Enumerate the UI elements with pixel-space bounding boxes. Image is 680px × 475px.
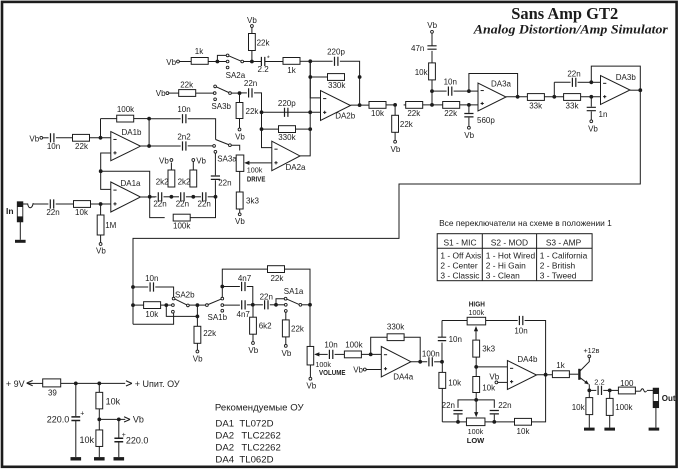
junction chain node 1 bbox=[164, 196, 180, 198]
junction low right bbox=[492, 420, 496, 424]
junction 4n7 top left bbox=[220, 285, 224, 289]
svg-text:VOLUME: VOLUME bbox=[319, 370, 346, 377]
junction DA3b output bbox=[638, 88, 642, 92]
op-amp DA3a bbox=[478, 83, 506, 111]
wire 2.2 to 1k bbox=[265, 61, 283, 63]
svg-text:10n: 10n bbox=[145, 274, 158, 283]
junction DA4b output bbox=[544, 373, 548, 377]
svg-text:220.0: 220.0 bbox=[126, 436, 149, 446]
svg-text:10k: 10k bbox=[75, 208, 89, 217]
svg-text:DA3b: DA3b bbox=[616, 73, 637, 82]
svg-text:22k: 22k bbox=[444, 109, 458, 118]
DA3a feedback loop bbox=[469, 74, 518, 97]
wire In jack to ground bbox=[19, 222, 21, 240]
wire 4n7 bottom right bbox=[247, 304, 253, 306]
Vb terminal below 6k2 bbox=[252, 342, 255, 345]
switch table bbox=[437, 234, 592, 281]
svg-text:4n7: 4n7 bbox=[237, 310, 251, 319]
capacitor 2.2 electrolytic bbox=[261, 57, 264, 66]
Vb terminal below 3k3 bbox=[238, 213, 241, 216]
Vb terminal below 1M bbox=[99, 243, 102, 246]
wire 2.2 to node bbox=[603, 389, 609, 391]
svg-text:+: + bbox=[80, 410, 84, 417]
resistor 10k input bbox=[74, 201, 91, 208]
svg-text:SA2b: SA2b bbox=[175, 290, 195, 299]
wire 1k to base bbox=[569, 373, 578, 375]
svg-text:Vb: Vb bbox=[235, 133, 245, 142]
wire 22k to Vb bbox=[285, 337, 287, 345]
potentiometer 100k VOLUME bbox=[307, 346, 314, 365]
wire DA1a output bbox=[141, 196, 156, 198]
resistor 10k tone bottom bbox=[515, 418, 532, 425]
wire 10k to low node bbox=[475, 393, 477, 400]
svg-text:DA4a: DA4a bbox=[393, 372, 414, 381]
svg-text:S2 - MOD: S2 - MOD bbox=[491, 237, 528, 247]
svg-text:DA2a: DA2a bbox=[285, 163, 306, 172]
svg-text:DA2: DA2 bbox=[215, 443, 234, 454]
Vb terminal below 560p bbox=[468, 126, 471, 129]
wire 47n to Vb bbox=[431, 33, 433, 46]
wire wiper to 10n bbox=[315, 353, 327, 355]
svg-text:22k: 22k bbox=[407, 109, 421, 118]
svg-text:SA1b: SA1b bbox=[208, 313, 228, 322]
wire 22k to SA3b throw bbox=[196, 92, 213, 94]
svg-text:SA2a: SA2a bbox=[226, 71, 246, 80]
wire C to R 22k bbox=[56, 137, 73, 139]
wire left column to DA2b - input bbox=[310, 61, 320, 98]
switch SA2a bbox=[217, 55, 226, 61]
svg-text:1n: 1n bbox=[599, 110, 608, 119]
capacitor 4n7 bottom bbox=[224, 304, 240, 306]
capacitor 10n tone left bbox=[441, 343, 443, 362]
wire 100 to squiggle bbox=[635, 390, 640, 392]
svg-text:10n: 10n bbox=[177, 105, 190, 114]
svg-text:100k: 100k bbox=[345, 341, 363, 350]
svg-text:10n: 10n bbox=[514, 326, 527, 335]
wire 10k to bottom row bbox=[441, 388, 443, 422]
resistor 22k SA3b bbox=[179, 90, 196, 97]
junction feedback right bbox=[147, 117, 151, 121]
svg-text:S1 - MIC: S1 - MIC bbox=[443, 237, 476, 247]
op-amp DA4b bbox=[507, 361, 536, 390]
capacitor 1n bbox=[590, 97, 592, 107]
wire 10k to ground bbox=[588, 415, 590, 428]
resistor 3k3 tone bbox=[473, 340, 480, 357]
svg-text:Vb: Vb bbox=[166, 58, 176, 67]
resistor 100k DA1a feedback bbox=[173, 214, 190, 221]
feedback wire left bbox=[101, 118, 117, 120]
junction Vb node bbox=[97, 418, 101, 422]
junction low node bbox=[474, 398, 478, 402]
wire 1M to Vb bbox=[100, 235, 102, 243]
In jack J1 bbox=[17, 202, 23, 222]
junction DA3b inverting node bbox=[589, 80, 593, 84]
capacitor 4n7 top bbox=[222, 286, 240, 288]
wire jack to squiggle bbox=[23, 203, 28, 205]
junction DA1a output node bbox=[148, 195, 152, 199]
wire cap to ground bbox=[118, 442, 120, 457]
svg-text:100k: 100k bbox=[247, 165, 263, 174]
svg-text:10k: 10k bbox=[572, 403, 586, 412]
svg-text:Vb: Vb bbox=[193, 355, 203, 364]
junction 22k shunt node bbox=[393, 103, 397, 107]
wire 3k3 to mid node bbox=[475, 357, 477, 367]
junction DA1b inverting node bbox=[99, 136, 103, 140]
capacitor 10n to SA3a bbox=[149, 118, 181, 120]
svg-text:33k: 33k bbox=[529, 102, 543, 111]
wire 10n to SA2b top throw bbox=[155, 287, 173, 297]
junction output node bbox=[608, 389, 612, 393]
resistor 330k DA2b feedback bbox=[328, 74, 345, 81]
Vb terminal below 1n bbox=[590, 120, 593, 123]
wire 2k2 second to Vb bbox=[192, 161, 194, 170]
wire 330k left bbox=[310, 76, 327, 78]
resistor 22k below SA3b bbox=[239, 93, 241, 102]
svg-text:22n: 22n bbox=[198, 199, 211, 208]
svg-text:560p: 560p bbox=[477, 116, 495, 125]
resistor 22k below SA2b bbox=[194, 326, 201, 343]
wire 1k to DA2b node bbox=[300, 60, 310, 62]
DA3b feedback loop bbox=[591, 66, 640, 90]
LOW pot wiper bbox=[475, 400, 477, 413]
svg-text:1 - Hot Wired: 1 - Hot Wired bbox=[486, 250, 536, 260]
wire 100k to DA4a - node bbox=[361, 353, 381, 355]
resistor 22k series 2 bbox=[443, 102, 460, 109]
svg-text:2 - Center: 2 - Center bbox=[440, 260, 477, 270]
svg-text:22k: 22k bbox=[291, 325, 305, 334]
svg-text:22n: 22n bbox=[176, 199, 189, 208]
wire 22k to DA1b - input bbox=[90, 137, 111, 139]
svg-text:10k: 10k bbox=[415, 68, 429, 77]
wire left column tone bbox=[441, 362, 443, 372]
resistor 22k series 1 bbox=[404, 104, 406, 106]
ground under In jack bbox=[15, 240, 26, 243]
capacitor 22n input bbox=[50, 199, 53, 208]
switch SA3b bbox=[213, 92, 216, 95]
junction emitter node bbox=[587, 389, 591, 393]
wire 10n to SA3a top bbox=[188, 119, 216, 140]
Out jack J2 bbox=[653, 388, 658, 407]
tone top row left bbox=[442, 320, 467, 322]
output squiggle bbox=[641, 389, 647, 392]
svg-text:Vb: Vb bbox=[248, 346, 258, 355]
wire 2k2 to Vb bbox=[170, 163, 172, 171]
resistor 10k emitter bbox=[588, 390, 590, 397]
wire node to cap 2.2 bbox=[252, 61, 261, 63]
svg-text:10n: 10n bbox=[47, 142, 60, 151]
svg-text:22n: 22n bbox=[218, 178, 231, 187]
svg-text:Vb: Vb bbox=[391, 145, 401, 154]
junction SA1a output node bbox=[308, 303, 312, 307]
wire 33k to DA3b + node bbox=[581, 96, 601, 98]
wire DA2a + row to DA2b bbox=[262, 111, 321, 113]
resistor 39 bbox=[43, 379, 61, 387]
svg-text:2k2: 2k2 bbox=[156, 178, 169, 187]
svg-text:DA1: DA1 bbox=[215, 419, 234, 430]
svg-text:S3 - AMP: S3 - AMP bbox=[546, 237, 582, 247]
resistor 10k tone mid bbox=[475, 367, 477, 377]
switch SA3a bbox=[213, 145, 216, 148]
wire 22k down to node bbox=[251, 51, 253, 62]
switch SA1a bbox=[276, 299, 284, 305]
wire 10k to node bbox=[161, 304, 167, 306]
svg-text:LOW: LOW bbox=[467, 436, 485, 445]
junction 10n row node bbox=[430, 89, 434, 93]
resistor 330k DA2a feedback bbox=[262, 128, 279, 130]
junction DA2a output top bbox=[308, 110, 312, 114]
wire right column down to DA2b output bbox=[359, 77, 361, 105]
wire 22n to SA1a node bbox=[270, 304, 276, 306]
capacitor 2.2 output bbox=[598, 386, 601, 395]
svg-text:Все переключатели на схеме в п: Все переключатели на схеме в положении 1 bbox=[439, 218, 612, 228]
svg-text:2n2: 2n2 bbox=[177, 132, 191, 141]
wire 10n up to top row bbox=[441, 321, 443, 338]
junction 47n column node bbox=[430, 103, 434, 107]
svg-text:3 - Clean: 3 - Clean bbox=[486, 270, 520, 280]
svg-text:330k: 330k bbox=[387, 322, 405, 331]
wire feedback bottom right bbox=[190, 197, 215, 218]
wire emitter to 2.2 bbox=[589, 389, 596, 391]
wire 22n cap down to chain bbox=[214, 180, 216, 197]
Vb terminal below 22k SA3b bbox=[238, 128, 241, 131]
junction Vb cap node bbox=[117, 418, 121, 422]
junction DA2b feedback top node bbox=[308, 59, 312, 63]
svg-text:22n: 22n bbox=[567, 69, 580, 78]
svg-text:22k: 22k bbox=[400, 120, 414, 129]
wire DA1b output bbox=[141, 145, 156, 147]
svg-text:10n: 10n bbox=[324, 341, 337, 350]
wire column to DA2a - input bbox=[262, 129, 272, 148]
wire mid node to DA4b - bbox=[476, 366, 507, 368]
wire node up to feedback bbox=[100, 119, 102, 138]
svg-text:TL062D: TL062D bbox=[239, 455, 273, 466]
wire left bypass loop bbox=[133, 313, 174, 324]
svg-text:Vb: Vb bbox=[489, 373, 499, 382]
junction rail divider node bbox=[97, 382, 101, 386]
svg-text:6k2: 6k2 bbox=[259, 322, 272, 331]
capacitor 220.0 electrolytic second bbox=[118, 419, 120, 437]
wire 10k to DA1a + input, node bbox=[91, 203, 111, 205]
svg-text:22k: 22k bbox=[246, 107, 260, 116]
svg-text:DA2b: DA2b bbox=[335, 112, 356, 121]
junction DA3a output bbox=[516, 95, 520, 99]
svg-text:22k: 22k bbox=[270, 274, 284, 283]
wire SA2b common to center node bbox=[189, 304, 197, 306]
wire Vb to + input bbox=[366, 369, 381, 371]
junction DA3b noninverting node bbox=[589, 95, 593, 99]
svg-text:10k: 10k bbox=[106, 397, 121, 407]
ground below cap second bbox=[114, 457, 125, 460]
wire 6k2 to Vb bbox=[252, 334, 254, 341]
svg-text:1M: 1M bbox=[105, 221, 116, 230]
wire volume to Vb bbox=[309, 365, 311, 377]
wire SA1a bottom throw to 22k bbox=[285, 312, 287, 320]
svg-text:100k: 100k bbox=[468, 427, 484, 436]
wire 9V to 39 bbox=[27, 382, 43, 384]
wire feedback down to DA1b output bbox=[148, 119, 150, 146]
resistor 22k shunt bbox=[394, 105, 396, 116]
resistor 2k2 second bbox=[190, 170, 197, 187]
svg-text:3k3: 3k3 bbox=[246, 197, 259, 206]
wire 3k3 to Vb bbox=[239, 209, 241, 213]
svg-text:Vb: Vb bbox=[464, 131, 474, 140]
capacitor 10n DA3a bbox=[432, 90, 447, 92]
capacitor 220p DA2a feedback bbox=[285, 108, 288, 117]
svg-text:33k: 33k bbox=[566, 102, 580, 111]
wire node to 220p bbox=[310, 60, 332, 62]
capacitor 22n below SA3a bbox=[214, 153, 216, 175]
svg-text:DA4: DA4 bbox=[215, 455, 234, 466]
junction DA2b output bbox=[358, 103, 362, 107]
svg-text:220.0: 220.0 bbox=[47, 415, 70, 425]
wire Vb to 22k bbox=[251, 27, 253, 33]
capacitor 22n DA3b bbox=[554, 81, 570, 83]
wire mid node down to DA1a - input bbox=[101, 171, 111, 189]
svg-text:22n: 22n bbox=[244, 79, 257, 88]
svg-text:22n: 22n bbox=[442, 401, 455, 410]
resistor 330k DA4a feedback bbox=[387, 334, 404, 341]
wire left column down bbox=[132, 287, 134, 324]
long wire DA3b output to lower section bbox=[133, 90, 640, 287]
junction 22n top node bbox=[552, 95, 556, 99]
wire Out jack to ground bbox=[655, 408, 657, 428]
svg-text:1 - California: 1 - California bbox=[540, 250, 588, 260]
svg-text:DA3a: DA3a bbox=[491, 79, 512, 88]
tone top row right bbox=[486, 320, 518, 322]
Vb rail arrow bbox=[99, 418, 125, 420]
svg-text:220p: 220p bbox=[278, 99, 296, 108]
svg-text:2 - Hi Gain: 2 - Hi Gain bbox=[486, 260, 526, 270]
junction rail cap node bbox=[74, 382, 78, 386]
svg-text:10k: 10k bbox=[517, 427, 531, 436]
wire 22n to - node bbox=[578, 81, 592, 83]
svg-text:DA2: DA2 bbox=[215, 431, 234, 442]
wire DA3a output bbox=[506, 96, 528, 98]
resistor 10k divider bottom bbox=[98, 419, 100, 430]
svg-text:100: 100 bbox=[620, 379, 634, 388]
wire DA4a output bbox=[411, 361, 427, 363]
svg-text:10k: 10k bbox=[448, 378, 462, 387]
potentiometer 100k DRIVE bbox=[236, 155, 244, 171]
wire 10k to Vb node bbox=[98, 409, 100, 420]
svg-text:22n: 22n bbox=[153, 199, 166, 208]
junction input node bbox=[99, 202, 103, 206]
capacitor 10n SA2b bbox=[133, 286, 148, 288]
junction mid node bbox=[99, 169, 103, 173]
resistor 10k divider top bbox=[98, 383, 100, 392]
resistor 100k DA4a input bbox=[344, 351, 361, 358]
feedback wire right bbox=[134, 118, 149, 120]
capacitor 10n after volume bbox=[329, 350, 332, 359]
wire 4n7 top right bbox=[247, 287, 253, 305]
junction chain end node bbox=[208, 196, 216, 198]
resistor 2k2 first bbox=[168, 170, 175, 187]
capacitor 22n low left bbox=[458, 400, 476, 408]
capacitor 22n chain 3 bbox=[203, 192, 206, 201]
wire Vb to + input bbox=[498, 381, 508, 383]
ground below divider bbox=[94, 457, 105, 460]
capacitor 22n chain 1 bbox=[150, 196, 157, 198]
resistor 10k after DA2b bbox=[369, 102, 386, 109]
junction SA2a left node bbox=[216, 60, 220, 64]
+12v terminal bbox=[588, 355, 591, 358]
resistor 100k output bbox=[609, 390, 611, 398]
svg-text:47n: 47n bbox=[411, 44, 424, 53]
op-amp DA3b bbox=[601, 76, 631, 105]
Vb terminal below 22k shunt bbox=[394, 140, 397, 143]
potentiometer 100k HIGH bbox=[467, 317, 486, 325]
resistor 22k below SA1a bbox=[282, 320, 289, 337]
wire top row to right column bbox=[525, 321, 546, 375]
junction tone stack left node bbox=[440, 360, 444, 364]
junction DA3a noninverting node bbox=[467, 103, 471, 107]
potentiometer 100k LOW bbox=[466, 418, 485, 426]
svg-text:22k: 22k bbox=[75, 142, 89, 151]
capacitor 47n bbox=[431, 51, 433, 63]
wire - node to DA3b bbox=[591, 81, 600, 83]
resistor 22k top loop bbox=[268, 266, 285, 273]
svg-text:100k: 100k bbox=[469, 308, 485, 317]
svg-text:10k: 10k bbox=[371, 109, 385, 118]
junction DA4a inverting node bbox=[369, 353, 373, 357]
op-amp DA2b bbox=[321, 91, 351, 121]
wire bottom row to right column bbox=[532, 375, 546, 422]
ground below cap first bbox=[71, 457, 82, 460]
resistor 22k DA1b input bbox=[73, 134, 90, 141]
svg-text:100k: 100k bbox=[315, 360, 331, 369]
junction 6k2 node bbox=[251, 303, 255, 307]
svg-text:+ Uпит. ОУ: + Uпит. ОУ bbox=[135, 379, 180, 389]
svg-text:2k2: 2k2 bbox=[178, 178, 191, 187]
capacitor 10n DA1b input bbox=[51, 133, 54, 142]
svg-text:1 - Off Axis: 1 - Off Axis bbox=[440, 250, 481, 260]
capacitor 22n low right bbox=[476, 400, 494, 408]
resistor 10k tone left bbox=[439, 372, 446, 388]
wire 10n to 100k bbox=[335, 353, 345, 355]
capacitor 100n bbox=[429, 357, 432, 366]
junction chain node 2 bbox=[186, 196, 201, 198]
wire SA1a common to output node bbox=[302, 304, 310, 306]
wire DA3b output bbox=[630, 89, 640, 91]
switch SA1b bbox=[197, 304, 205, 306]
Vb terminal below 22k SA2b bbox=[196, 350, 199, 353]
svg-text:Vb: Vb bbox=[96, 247, 106, 256]
junction SA3b node bbox=[238, 91, 242, 95]
wire node up to 22n bbox=[553, 82, 555, 97]
wire DRIVE to 3k3 bbox=[239, 171, 241, 192]
Vb terminal below volume bbox=[309, 377, 312, 380]
svg-text:3 - Tweed: 3 - Tweed bbox=[540, 270, 577, 280]
svg-text:10k: 10k bbox=[79, 435, 94, 445]
svg-text:DA4b: DA4b bbox=[517, 355, 538, 364]
wire Vb to 22k bbox=[169, 92, 179, 94]
svg-text:SA1a: SA1a bbox=[284, 287, 304, 296]
svg-text:1k: 1k bbox=[287, 66, 296, 75]
capacitor 220p DA2b feedback bbox=[335, 57, 338, 66]
wire node down to volume pot bbox=[309, 305, 311, 347]
wire HIGH wiper to 3k3 bbox=[475, 330, 477, 340]
resistor 33k first bbox=[527, 94, 544, 101]
wire C1 to R 10k bbox=[56, 203, 74, 205]
Vb terminal above 2k2 second bbox=[192, 159, 195, 162]
wire 220p to right column bbox=[340, 61, 360, 77]
wire 22n to DA2a column bbox=[254, 93, 262, 112]
svg-text:22n: 22n bbox=[46, 208, 59, 217]
wire DA2a output up to 1k row bbox=[300, 61, 310, 156]
junction 10k row left bbox=[131, 303, 135, 307]
wire Vb to 1k bbox=[179, 61, 191, 63]
wire 33k to node bbox=[544, 96, 563, 98]
